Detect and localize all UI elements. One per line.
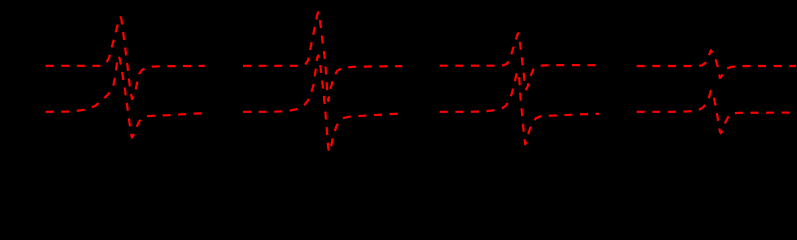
panel 3 bottom trace [440, 72, 599, 145]
panel 2 top trace [243, 12, 402, 101]
panel 3 top trace [440, 33, 599, 89]
panel 1 top trace [46, 17, 205, 99]
panel 1 bottom trace [46, 56, 206, 138]
panel 4 top trace [637, 50, 796, 78]
panel 2 bottom trace [243, 56, 402, 153]
panel 4 bottom trace [637, 91, 796, 133]
